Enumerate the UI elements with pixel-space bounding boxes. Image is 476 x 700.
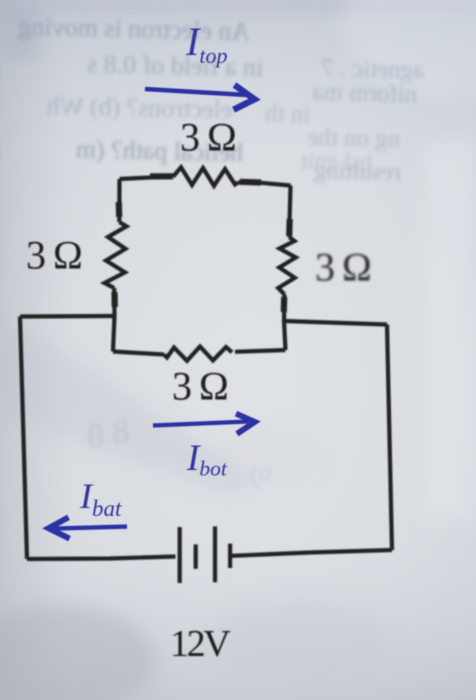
- wire stub left lower: [111, 292, 118, 307]
- faint ghost marks inside loop: [84, 412, 133, 457]
- wire: outer loop bottom left segment: [27, 557, 176, 560]
- arrow I_bat: [54, 527, 127, 529]
- svg-text:si: si: [0, 57, 1, 86]
- wire: inner square bottom edge left part: [113, 352, 164, 355]
- svg-text:3 Ω: 3 Ω: [172, 364, 227, 409]
- blue current arrows: [49, 85, 255, 539]
- arrow I_bot: [153, 422, 248, 426]
- svg-text:3 Ω: 3 Ω: [26, 233, 81, 278]
- wire: outer loop top-right segment: [284, 321, 387, 325]
- wire: outer loop bottom right segment: [232, 550, 392, 556]
- battery B1 long plate left: [178, 527, 182, 583]
- wire stub right upper: [286, 219, 293, 236]
- svg-text:An electron is moving: An electron is moving: [18, 12, 250, 46]
- wire: outer loop top-left segment: [20, 314, 114, 319]
- wire stub left upper: [116, 202, 123, 217]
- circuit ink: [20, 167, 392, 583]
- resistor R-top 3ohm zigzag: [173, 167, 238, 186]
- wire: inner square left side lower: [113, 288, 115, 352]
- wire: inner square bottom edge right part: [235, 350, 286, 352]
- wire stub right lower: [281, 297, 288, 312]
- wire: outer loop right vertical: [387, 325, 392, 551]
- wire: outer loop left vertical: [20, 317, 27, 560]
- wire: inner square left side upper: [117, 179, 121, 222]
- wire: inner square right side upper: [289, 186, 290, 238]
- svg-text:bsl gnit: bsl gnit: [300, 149, 372, 176]
- svg-text:12V: 12V: [170, 623, 231, 665]
- wire stub top-right: [240, 179, 261, 186]
- svg-text:in a field of 0.8 s: in a field of 0.8 s: [87, 49, 264, 82]
- battery B1 long plate right: [213, 526, 217, 582]
- svg-text:3 Ω: 3 Ω: [180, 115, 235, 160]
- wire: inner square top edge right part: [238, 183, 291, 186]
- arrow I_top: [145, 89, 247, 95]
- wire: inner square top edge left part: [120, 177, 174, 179]
- resistor R-right 3ohm zigzag: [278, 237, 296, 295]
- resistor R-left 3ohm zigzag: [105, 222, 127, 288]
- svg-text:niform ma: niform ma: [312, 79, 417, 108]
- battery B1 short plate left: [194, 544, 198, 568]
- wire: inner square right side lower: [284, 295, 286, 351]
- resistor R-bottom 3ohm zigzag: [164, 347, 232, 361]
- svg-text:in th: in th: [264, 100, 310, 128]
- svg-text:3 Ω: 3 Ω: [315, 245, 370, 290]
- battery B1 short plate right: [228, 544, 232, 568]
- wire stub top-left: [150, 173, 173, 179]
- bleed-through mirrored text from reverse page: [0, 5, 424, 491]
